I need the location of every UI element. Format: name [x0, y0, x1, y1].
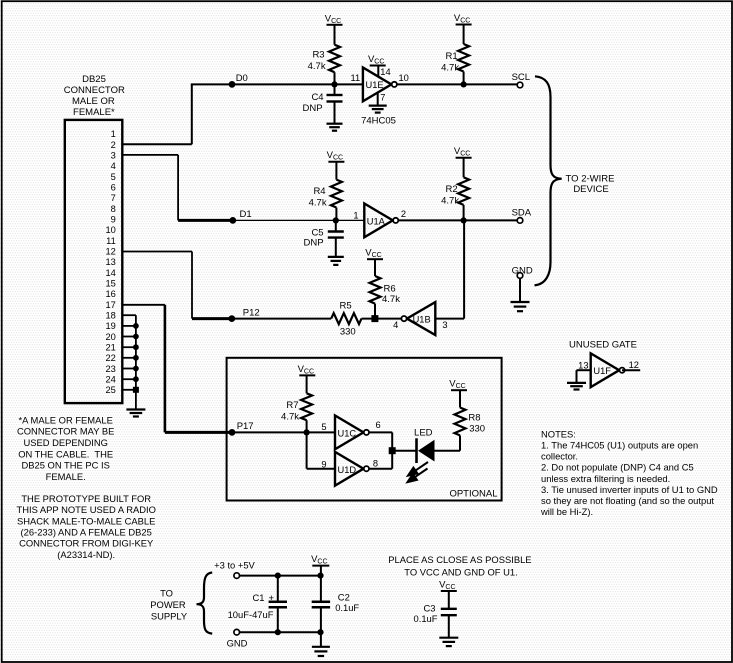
svg-text:3. Tie unused inverter inputs: 3. Tie unused inverter inputs of U1 to G… — [541, 484, 718, 495]
wire U1E pin 14 stub — [377, 66, 379, 78]
svg-text:R3: R3 — [312, 50, 324, 61]
capacitor C5 DNP — [304, 220, 344, 257]
svg-text:(26-233) AND A FEMALE DB25: (26-233) AND A FEMALE DB25 — [21, 527, 152, 538]
resistor R3 4.7k — [308, 25, 340, 85]
wire U1B to riser — [435, 318, 464, 320]
connector pin numbers 1-25 — [105, 129, 115, 395]
prototype cable text — [16, 493, 155, 560]
wire riser pin2 to D0 row — [191, 84, 193, 144]
svg-text:U1E: U1E — [366, 80, 384, 90]
wire GND stub — [519, 278, 521, 302]
resistor R1 4.7k — [441, 25, 469, 85]
svg-text:PLACE AS CLOSE AS POSSIBLE: PLACE AS CLOSE AS POSSIBLE — [388, 554, 531, 565]
junction R7/P17/U1D riser — [304, 429, 310, 435]
notes text — [540, 429, 718, 518]
wire riser pin3 down — [177, 155, 179, 221]
svg-text:will be Hi-Z).: will be Hi-Z). — [540, 506, 593, 517]
svg-text:0.1uF: 0.1uF — [335, 602, 359, 613]
svg-text:CONNECTOR FROM DIGI-KEY: CONNECTOR FROM DIGI-KEY — [19, 538, 154, 549]
svg-text:R1: R1 — [446, 51, 458, 62]
brace to power supply — [197, 573, 213, 634]
wire U1E pin 7 stub — [377, 93, 379, 106]
svg-text:4.7k: 4.7k — [281, 412, 299, 423]
svg-text:POWER: POWER — [150, 599, 186, 610]
svg-text:12: 12 — [105, 247, 115, 257]
node P12 — [228, 307, 259, 322]
svg-text:4.7k: 4.7k — [308, 61, 326, 72]
svg-text:TO 2-WIRE: TO 2-WIRE — [566, 174, 615, 185]
svg-text:22: 22 — [105, 353, 115, 363]
svg-text:P12: P12 — [243, 307, 260, 318]
junction R3/C4/D0 — [331, 81, 337, 87]
wire bottom power rail — [240, 631, 321, 633]
ground under connector bus — [126, 410, 145, 417]
power Vcc for R7 — [298, 364, 316, 376]
svg-text:R8: R8 — [468, 412, 480, 423]
ground under GND terminal — [511, 302, 530, 311]
wire D0 row to U1E input — [191, 83, 363, 85]
brace to 2-wire device — [535, 76, 562, 285]
svg-text:4: 4 — [393, 320, 398, 330]
footnote male or female text — [17, 414, 114, 482]
svg-text:10: 10 — [399, 73, 409, 83]
svg-text:GND: GND — [227, 637, 248, 648]
wire pin 17 stub — [122, 304, 165, 306]
wire riser U1B to SDA row — [463, 220, 465, 318]
svg-text:DB25: DB25 — [82, 74, 106, 85]
svg-text:21: 21 — [105, 343, 115, 353]
svg-text:LED: LED — [414, 428, 433, 439]
svg-text:THIS APP NOTE USED A RADIO: THIS APP NOTE USED A RADIO — [16, 504, 155, 515]
wire pin 12 stub — [122, 251, 192, 253]
svg-text:3: 3 — [111, 151, 116, 161]
svg-text:9: 9 — [111, 215, 116, 225]
wire R5 to U1B input bubble — [362, 318, 402, 320]
svg-text:18: 18 — [105, 311, 115, 321]
svg-text:C4: C4 — [311, 92, 323, 103]
svg-text:330: 330 — [340, 327, 356, 338]
label TO 2-WIRE DEVICE — [566, 174, 615, 196]
wire node to LED — [392, 450, 415, 452]
power Vcc for R4 — [327, 150, 345, 162]
wire U1F input down to ground — [576, 370, 578, 383]
svg-text:C3: C3 — [424, 602, 436, 613]
power Vcc for R2 — [454, 146, 472, 158]
DB25 connector label — [64, 74, 125, 118]
svg-text:4.7k: 4.7k — [382, 294, 400, 305]
svg-text:8: 8 — [111, 204, 116, 214]
op-amp U1E inverter — [363, 68, 397, 102]
svg-text:DNP: DNP — [304, 237, 324, 248]
ground under C5 — [328, 257, 344, 265]
svg-text:SDA: SDA — [512, 208, 532, 219]
svg-text:D1: D1 — [240, 209, 252, 220]
svg-text:0.1uF: 0.1uF — [414, 613, 438, 624]
svg-text:TO VCC AND GND OF U1.: TO VCC AND GND OF U1. — [404, 567, 517, 578]
svg-text:3: 3 — [442, 320, 447, 330]
wire U1D output — [369, 468, 392, 470]
power Vcc for R6 — [365, 248, 383, 260]
svg-text:12: 12 — [629, 360, 639, 370]
power Vcc above C2 — [311, 554, 329, 566]
wire P12 to R5 — [232, 318, 331, 320]
svg-text:THE PROTOTYPE BUILT FOR: THE PROTOTYPE BUILT FOR — [21, 493, 151, 504]
DB25 connector box — [65, 120, 123, 403]
terminal GND — [512, 265, 533, 278]
svg-text:1. The 74HC05 (U1) outputs are: 1. The 74HC05 (U1) outputs are open — [541, 440, 698, 451]
svg-text:SUPPLY: SUPPLY — [151, 611, 188, 622]
op-amp U1D inverter — [335, 452, 369, 486]
svg-text:ON THE CABLE. THE: ON THE CABLE. THE — [18, 448, 113, 459]
svg-text:SCL: SCL — [512, 72, 530, 83]
wire thick to P12 — [192, 317, 232, 320]
svg-text:6: 6 — [111, 183, 116, 193]
ground under U1F input — [567, 383, 586, 390]
svg-text:NOTES:: NOTES: — [541, 429, 576, 440]
svg-text:8: 8 — [373, 459, 378, 469]
svg-text:5: 5 — [321, 422, 326, 432]
power Vcc for R8 — [449, 379, 467, 391]
svg-text:DNP: DNP — [303, 103, 323, 114]
svg-text:UNUSED GATE: UNUSED GATE — [569, 340, 637, 351]
svg-text:1: 1 — [111, 129, 116, 139]
svg-text:CONNECTOR: CONNECTOR — [64, 85, 125, 96]
svg-text:11: 11 — [351, 73, 361, 83]
resistor R2 4.7k — [441, 158, 469, 221]
wire U1F output — [622, 369, 640, 371]
wire U1E output to SCL — [397, 83, 518, 85]
svg-text:OPTIONAL: OPTIONAL — [449, 489, 497, 500]
wire LED to R8 — [435, 450, 461, 452]
resistor R5 330 — [331, 300, 361, 337]
svg-text:DEVICE: DEVICE — [573, 184, 608, 195]
svg-text:4.7k: 4.7k — [441, 195, 459, 206]
LED emission arrows — [408, 462, 429, 482]
resistor R6 4.7k — [370, 259, 401, 318]
svg-text:R5: R5 — [340, 300, 352, 311]
svg-text:*A MALE OR FEMALE: *A MALE OR FEMALE — [19, 414, 113, 425]
wire pin 3 stub — [122, 154, 179, 156]
svg-text:unless extra filtering is need: unless extra filtering is needed. — [541, 473, 670, 484]
capacitor C1 10uF-47uF — [228, 576, 287, 633]
capacitor C3 0.1uF — [414, 591, 457, 638]
svg-text:19: 19 — [105, 321, 115, 331]
svg-text:16: 16 — [105, 289, 115, 299]
optional box — [227, 358, 502, 501]
svg-text:U1B: U1B — [413, 314, 431, 324]
svg-text:5: 5 — [111, 172, 116, 182]
svg-text:U1D: U1D — [338, 465, 357, 475]
node D0 — [229, 73, 248, 88]
svg-text:FEMALE*: FEMALE* — [73, 107, 115, 118]
power Vcc for C3 — [439, 580, 457, 592]
node P17 — [229, 421, 254, 436]
svg-text:collector.: collector. — [541, 451, 578, 462]
svg-text:4: 4 — [111, 161, 116, 171]
wire riser pin12 down — [191, 252, 193, 319]
svg-text:20: 20 — [105, 332, 115, 342]
junction R4/C5/D1 — [333, 217, 339, 223]
svg-text:24: 24 — [105, 375, 115, 385]
svg-text:DB25 ON THE PC IS: DB25 ON THE PC IS — [21, 460, 109, 471]
ground under U1E pin 7 — [369, 106, 387, 113]
terminal +3 to +5V — [234, 573, 240, 579]
op-amp U1F inverter — [591, 353, 625, 387]
svg-text:25: 25 — [105, 385, 115, 395]
junction C1 bottom — [275, 629, 281, 635]
svg-text:U1F: U1F — [593, 366, 611, 376]
svg-text:7: 7 — [111, 193, 116, 203]
power Vcc for U1E pin 14 — [368, 54, 386, 66]
svg-text:C1: C1 — [253, 592, 265, 603]
wire U1D input — [307, 468, 335, 470]
LED diode — [414, 428, 434, 463]
svg-text:2. Do not populate (DNP) C4 an: 2. Do not populate (DNP) C4 and C5 — [541, 462, 694, 473]
svg-text:4.7k: 4.7k — [309, 198, 327, 209]
svg-text:D0: D0 — [236, 73, 248, 84]
wire U1A output to SDA — [399, 219, 518, 221]
svg-text:+: + — [269, 593, 275, 604]
label TO POWER SUPPLY — [150, 588, 188, 622]
ground under C4 — [327, 124, 343, 131]
svg-text:U1C: U1C — [338, 428, 357, 438]
terminal SCL — [512, 72, 530, 88]
junction R2/SDA/U1B riser — [461, 217, 467, 223]
junction C1 top — [275, 573, 281, 579]
svg-text:6: 6 — [376, 420, 381, 430]
svg-text:15: 15 — [105, 279, 115, 289]
svg-text:2: 2 — [401, 209, 406, 219]
junction R1/SCL — [461, 81, 467, 87]
capacitor C2 0.1uF — [312, 566, 360, 647]
svg-text:9: 9 — [321, 460, 326, 470]
svg-text:MALE OR: MALE OR — [72, 96, 115, 107]
svg-text:FEMALE.: FEMALE. — [46, 471, 86, 482]
op-amp U1A inverter — [364, 204, 398, 238]
power Vcc for R3 — [325, 13, 343, 25]
svg-text:so they are not floating (and: so they are not floating (and so the out… — [541, 495, 714, 506]
wire P17 to U1C input — [232, 431, 335, 433]
ground under C2 — [312, 647, 330, 656]
svg-text:74HC05: 74HC05 — [361, 116, 396, 127]
junction C2 top — [317, 573, 323, 579]
node D1 — [229, 209, 251, 224]
svg-text:330: 330 — [469, 424, 485, 435]
svg-text:TO: TO — [160, 588, 173, 599]
svg-text:13: 13 — [578, 360, 588, 370]
terminal GND power — [234, 629, 240, 635]
svg-text:14: 14 — [105, 268, 115, 278]
capacitor C4 DNP — [303, 84, 343, 123]
svg-text:1: 1 — [353, 210, 358, 220]
svg-text:P17: P17 — [237, 421, 254, 432]
svg-text:17: 17 — [105, 300, 115, 310]
svg-text:7: 7 — [380, 92, 385, 102]
svg-text:GND: GND — [512, 265, 533, 276]
power Vcc for R1 — [454, 13, 472, 25]
svg-text:(A23314-ND).: (A23314-ND). — [57, 549, 115, 560]
svg-text:11: 11 — [106, 236, 116, 246]
wire top power rail — [240, 575, 321, 577]
wire riser pin17 down — [164, 305, 167, 433]
svg-text:U1A: U1A — [367, 217, 386, 227]
label place as close — [388, 554, 531, 577]
resistor R8 330 — [455, 390, 486, 451]
svg-text:10: 10 — [105, 225, 115, 235]
svg-text:R7: R7 — [286, 400, 298, 411]
wire pin stubs 18-25 to ground bus — [122, 315, 136, 409]
svg-text:SHACK MALE-TO-MALE CABLE: SHACK MALE-TO-MALE CABLE — [17, 515, 155, 526]
wire U1F input — [577, 369, 591, 371]
svg-text:10uF-47uF: 10uF-47uF — [228, 609, 274, 620]
wire U1C output — [369, 431, 392, 433]
junction C2 bottom — [317, 629, 323, 635]
svg-text:+3 to +5V: +3 to +5V — [214, 560, 255, 571]
junction R6/R5/U1B — [371, 315, 378, 322]
svg-text:4.7k: 4.7k — [441, 63, 459, 74]
svg-text:13: 13 — [105, 257, 115, 267]
svg-text:USED DEPENDING: USED DEPENDING — [24, 437, 108, 448]
svg-text:23: 23 — [105, 364, 115, 374]
wire riser to U1D input — [306, 432, 308, 468]
wire joining outputs — [391, 432, 393, 468]
wire thick to P17 — [165, 431, 232, 434]
resistor R7 4.7k — [281, 375, 312, 432]
svg-text:2: 2 — [111, 140, 116, 150]
resistor R4 4.7k — [309, 162, 342, 221]
op-amp U1B inverter (left-pointing) — [401, 302, 435, 335]
wire thick to D1 — [178, 219, 233, 222]
svg-text:R4: R4 — [313, 186, 325, 197]
op-amp U1C inverter — [335, 416, 369, 450]
wire D1 to U1A input — [233, 219, 364, 221]
junctions on ground bus — [133, 323, 139, 393]
junction LED node — [389, 447, 396, 454]
svg-text:R2: R2 — [446, 184, 458, 195]
wire pin 2 stub — [122, 143, 192, 145]
svg-text:CONNECTOR MAY BE: CONNECTOR MAY BE — [17, 426, 114, 437]
svg-text:14: 14 — [380, 67, 390, 77]
terminal SDA — [512, 208, 532, 224]
ground under C3 — [439, 638, 458, 646]
